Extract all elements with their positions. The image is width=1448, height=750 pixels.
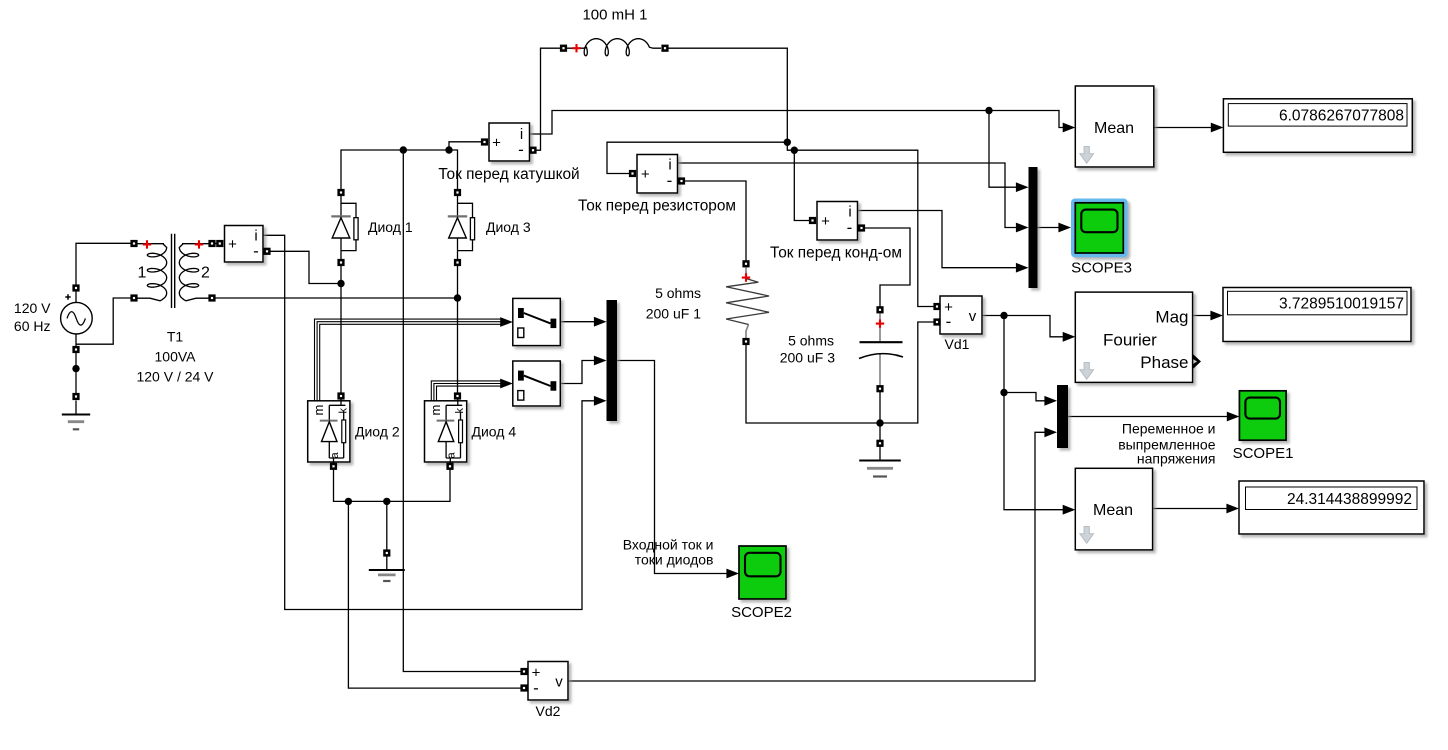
svg-text:m: m [311,405,326,416]
svg-text:Fourier: Fourier [1103,331,1157,350]
svg-text:-: - [253,241,259,260]
svg-text:1: 1 [138,265,147,282]
svg-text:2: 2 [201,265,210,282]
svg-text:a: a [329,452,341,459]
svg-text:3.7289510019157: 3.7289510019157 [1279,296,1404,313]
svg-text:5 ohms: 5 ohms [655,285,701,301]
svg-text:Vd2: Vd2 [536,703,561,719]
svg-text:T1: T1 [167,328,184,344]
svg-text:Диод 3: Диод 3 [486,219,531,235]
svg-text:Ток перед резистором: Ток перед резистором [578,198,736,215]
svg-text:5 ohms: 5 ohms [788,332,834,348]
svg-text:Mag: Mag [1155,308,1188,327]
svg-text:k: k [454,408,466,414]
svg-text:Mean: Mean [1094,120,1134,137]
svg-text:Диод 1: Диод 1 [368,219,413,235]
svg-text:m: m [428,405,443,416]
svg-text:Входной ток и: Входной ток и [623,537,714,553]
svg-text:-: - [518,140,524,159]
svg-text:24.314438899992: 24.314438899992 [1287,491,1412,508]
svg-text:-: - [946,312,952,331]
svg-text:Ток перед катушкой: Ток перед катушкой [438,166,579,183]
svg-text:Ток перед конд-ом: Ток перед конд-ом [770,245,902,262]
svg-text:Диод 4: Диод 4 [472,424,517,440]
svg-text:100 mH 1: 100 mH 1 [582,6,647,23]
svg-text:Mean: Mean [1093,502,1133,519]
svg-text:120 V: 120 V [14,300,51,316]
svg-text:100VA: 100VA [155,348,197,364]
svg-text:Диод 2: Диод 2 [355,424,400,440]
svg-text:k: k [337,408,349,414]
svg-text:Vd1: Vd1 [945,336,970,352]
svg-text:-: - [847,218,853,237]
svg-text:SCOPE3: SCOPE3 [1071,259,1132,276]
svg-text:6.0786267077808: 6.0786267077808 [1279,108,1404,125]
svg-text:-: - [533,679,539,698]
svg-text:200 uF 3: 200 uF 3 [780,349,835,365]
svg-text:токи диодов: токи диодов [635,552,714,568]
svg-text:+: + [821,213,830,230]
svg-text:SCOPE1: SCOPE1 [1233,445,1294,462]
svg-text:Phase: Phase [1140,353,1188,372]
svg-text:a: a [446,452,458,459]
svg-text:200 uF 1: 200 uF 1 [646,305,701,321]
svg-text:v: v [969,308,977,325]
svg-text:Переменное и: Переменное и [1122,420,1216,436]
svg-text:60 Hz: 60 Hz [14,318,51,334]
svg-text:SCOPE2: SCOPE2 [731,604,792,621]
svg-text:напряжения: напряжения [1137,450,1216,466]
svg-text:120 V / 24 V: 120 V / 24 V [136,368,214,384]
svg-text:+: + [492,134,501,151]
svg-text:+: + [641,166,650,183]
svg-text:-: - [667,171,673,190]
svg-text:v: v [555,673,563,690]
svg-text:+: + [228,236,237,253]
